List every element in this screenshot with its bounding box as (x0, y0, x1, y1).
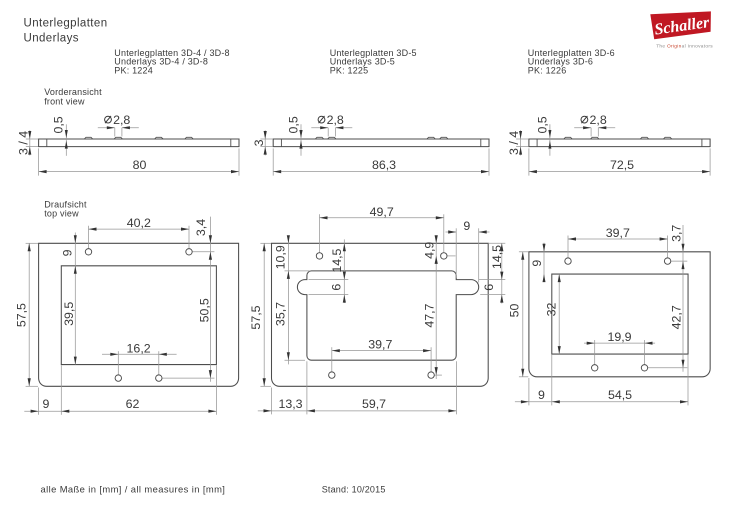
svg-text:3 / 4: 3 / 4 (16, 131, 30, 155)
svg-text:3: 3 (252, 139, 266, 146)
svg-text:The Original Innovators: The Original Innovators (656, 43, 713, 49)
svg-text:72,5: 72,5 (610, 158, 634, 172)
svg-text:Stand: 10/2015: Stand: 10/2015 (322, 485, 386, 495)
svg-text:front view: front view (44, 97, 85, 107)
svg-text:6: 6 (482, 284, 496, 291)
svg-text:80: 80 (133, 158, 147, 172)
svg-text:49,7: 49,7 (370, 205, 394, 219)
svg-text:13,3: 13,3 (278, 397, 302, 411)
svg-text:PK: 1224: PK: 1224 (114, 65, 153, 75)
svg-text:42,7: 42,7 (670, 305, 684, 329)
svg-text:3,7: 3,7 (669, 225, 683, 242)
svg-text:9: 9 (530, 260, 544, 267)
svg-text:Vorderansicht: Vorderansicht (44, 87, 102, 97)
svg-text:19,9: 19,9 (607, 330, 631, 344)
svg-text:Underlays: Underlays (24, 33, 79, 45)
svg-text:62: 62 (126, 397, 140, 411)
svg-text:2,8: 2,8 (327, 113, 344, 127)
svg-text:alle Maße in [mm] / all measur: alle Maße in [mm] / all measures in [mm] (41, 484, 226, 495)
svg-text:40,2: 40,2 (127, 216, 151, 230)
svg-text:39,5: 39,5 (62, 302, 76, 326)
svg-text:2,8: 2,8 (590, 113, 607, 127)
svg-text:39,7: 39,7 (606, 226, 630, 240)
svg-text:6: 6 (330, 284, 344, 291)
svg-text:14,5: 14,5 (490, 245, 504, 269)
svg-text:16,2: 16,2 (127, 341, 151, 355)
svg-text:2,8: 2,8 (113, 113, 130, 127)
svg-text:57,5: 57,5 (15, 303, 29, 327)
svg-text:PK: 1225: PK: 1225 (330, 65, 369, 75)
svg-text:32: 32 (545, 303, 559, 317)
svg-text:54,5: 54,5 (608, 388, 632, 402)
svg-text:4,9: 4,9 (423, 242, 437, 259)
svg-text:0,5: 0,5 (535, 116, 549, 133)
svg-text:14,5: 14,5 (330, 248, 344, 272)
svg-text:39,7: 39,7 (368, 338, 392, 352)
svg-text:PK: 1226: PK: 1226 (528, 65, 567, 75)
svg-text:86,3: 86,3 (372, 158, 396, 172)
svg-text:57,5: 57,5 (249, 305, 263, 329)
svg-text:3 / 4: 3 / 4 (507, 131, 521, 155)
svg-text:9: 9 (463, 219, 470, 233)
svg-text:0,5: 0,5 (52, 116, 66, 133)
svg-text:3,4: 3,4 (194, 219, 208, 236)
svg-text:top view: top view (44, 209, 79, 219)
svg-text:50,5: 50,5 (198, 298, 212, 322)
svg-text:50: 50 (508, 304, 522, 318)
svg-text:35,7: 35,7 (274, 302, 288, 326)
svg-text:0,5: 0,5 (286, 116, 300, 133)
svg-text:9: 9 (43, 397, 50, 411)
svg-text:47,7: 47,7 (423, 303, 437, 327)
svg-text:10,9: 10,9 (273, 245, 287, 269)
svg-text:9: 9 (60, 249, 74, 256)
svg-text:Unterlegplatten: Unterlegplatten (24, 18, 108, 30)
svg-text:59,7: 59,7 (362, 397, 386, 411)
svg-text:9: 9 (538, 388, 545, 402)
